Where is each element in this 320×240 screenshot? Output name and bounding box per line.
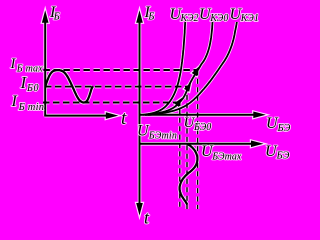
operating point arrow at I_Bmin level on curve U_KE0 xyxy=(174,98,182,107)
input characteristic curve for U_KE0 xyxy=(145,22,213,115)
left plot horizontal axis (t axis line) xyxy=(44,115,108,117)
arrowhead of lower U_BE axis xyxy=(251,141,264,148)
svg-text:I: I xyxy=(11,93,18,110)
input characteristic curve for U_KE1 xyxy=(148,22,237,115)
white halo copies of all strokes (anti-alias halo effect) xyxy=(42,10,266,215)
curve label U_KE0 xyxy=(199,6,228,24)
axis label t (left plot abscissa) xyxy=(121,108,127,129)
axis label U_BE (upper abscissa) xyxy=(266,115,291,134)
svg-text:БЭ: БЭ xyxy=(276,151,290,162)
svg-text:Б: Б xyxy=(147,12,154,23)
level label I_Bmin xyxy=(11,93,45,113)
input characteristic curve for U_KE2 xyxy=(143,22,185,115)
arrowhead of upper U_BE axis xyxy=(253,112,265,119)
dashed level line I_Bmax xyxy=(44,69,198,71)
dashed vertical line at U_BE0 xyxy=(186,87,188,210)
upper horizontal axis U_BE (input characteristic abscissa) xyxy=(139,114,255,116)
svg-text:КЭ0: КЭ0 xyxy=(209,13,228,24)
svg-text:БЭ: БЭ xyxy=(277,123,291,134)
value label U_BE0 xyxy=(184,115,212,133)
value label U_BEmax xyxy=(201,143,242,163)
axis label U_BE (lower abscissa) xyxy=(265,143,290,162)
svg-text:Б: Б xyxy=(53,12,60,23)
arrowhead of left t axis xyxy=(106,112,119,119)
arrowhead of right I_B axis xyxy=(136,10,143,23)
dashed level line I_B0 xyxy=(45,86,188,88)
svg-text:БЭmax: БЭmax xyxy=(211,152,242,163)
operating point arrow at I_B0 level on curve U_KE0 xyxy=(184,82,191,92)
base current waveform i_B(t) sine curve xyxy=(46,70,94,102)
level label I_B0 xyxy=(20,73,40,94)
svg-text:БЭ0: БЭ0 xyxy=(193,122,211,133)
dashed level line I_Bmin xyxy=(43,102,179,104)
curve label U_KE1 xyxy=(230,6,259,24)
svg-text:КЭ1: КЭ1 xyxy=(240,13,259,24)
axis label I_B (left plot ordinate) xyxy=(49,4,60,23)
arrowhead of left I_B axis xyxy=(42,10,49,23)
axis label t (downward time axis) xyxy=(144,208,150,228)
operating point arrow at I_Bmax level on curve U_KE0 xyxy=(192,66,200,76)
arrowhead of downward t axis xyxy=(136,203,143,216)
svg-text:КЭ2: КЭ2 xyxy=(180,13,199,24)
right plot vertical axis (I_B / t axis line) xyxy=(139,20,141,205)
svg-text:Б min: Б min xyxy=(18,102,45,113)
curve label U_KE2 xyxy=(170,6,199,24)
left plot vertical axis (I_B axis line) xyxy=(44,20,46,116)
lower horizontal axis U_BE (voltage waveform abscissa) xyxy=(139,143,253,145)
svg-text:БЭmin: БЭmin xyxy=(148,131,177,142)
level label I_Bmax xyxy=(10,56,44,75)
dashed vertical line at U_BEmax xyxy=(197,71,199,210)
input voltage waveform u_BE(t) sine curve xyxy=(180,144,198,205)
value label U_BEmin xyxy=(137,123,177,142)
axis label I_B (right plot ordinate) xyxy=(144,4,155,23)
dashed vertical line at U_BEmin xyxy=(179,101,181,209)
svg-text:Б0: Б0 xyxy=(26,83,39,94)
svg-text:t: t xyxy=(121,108,127,129)
